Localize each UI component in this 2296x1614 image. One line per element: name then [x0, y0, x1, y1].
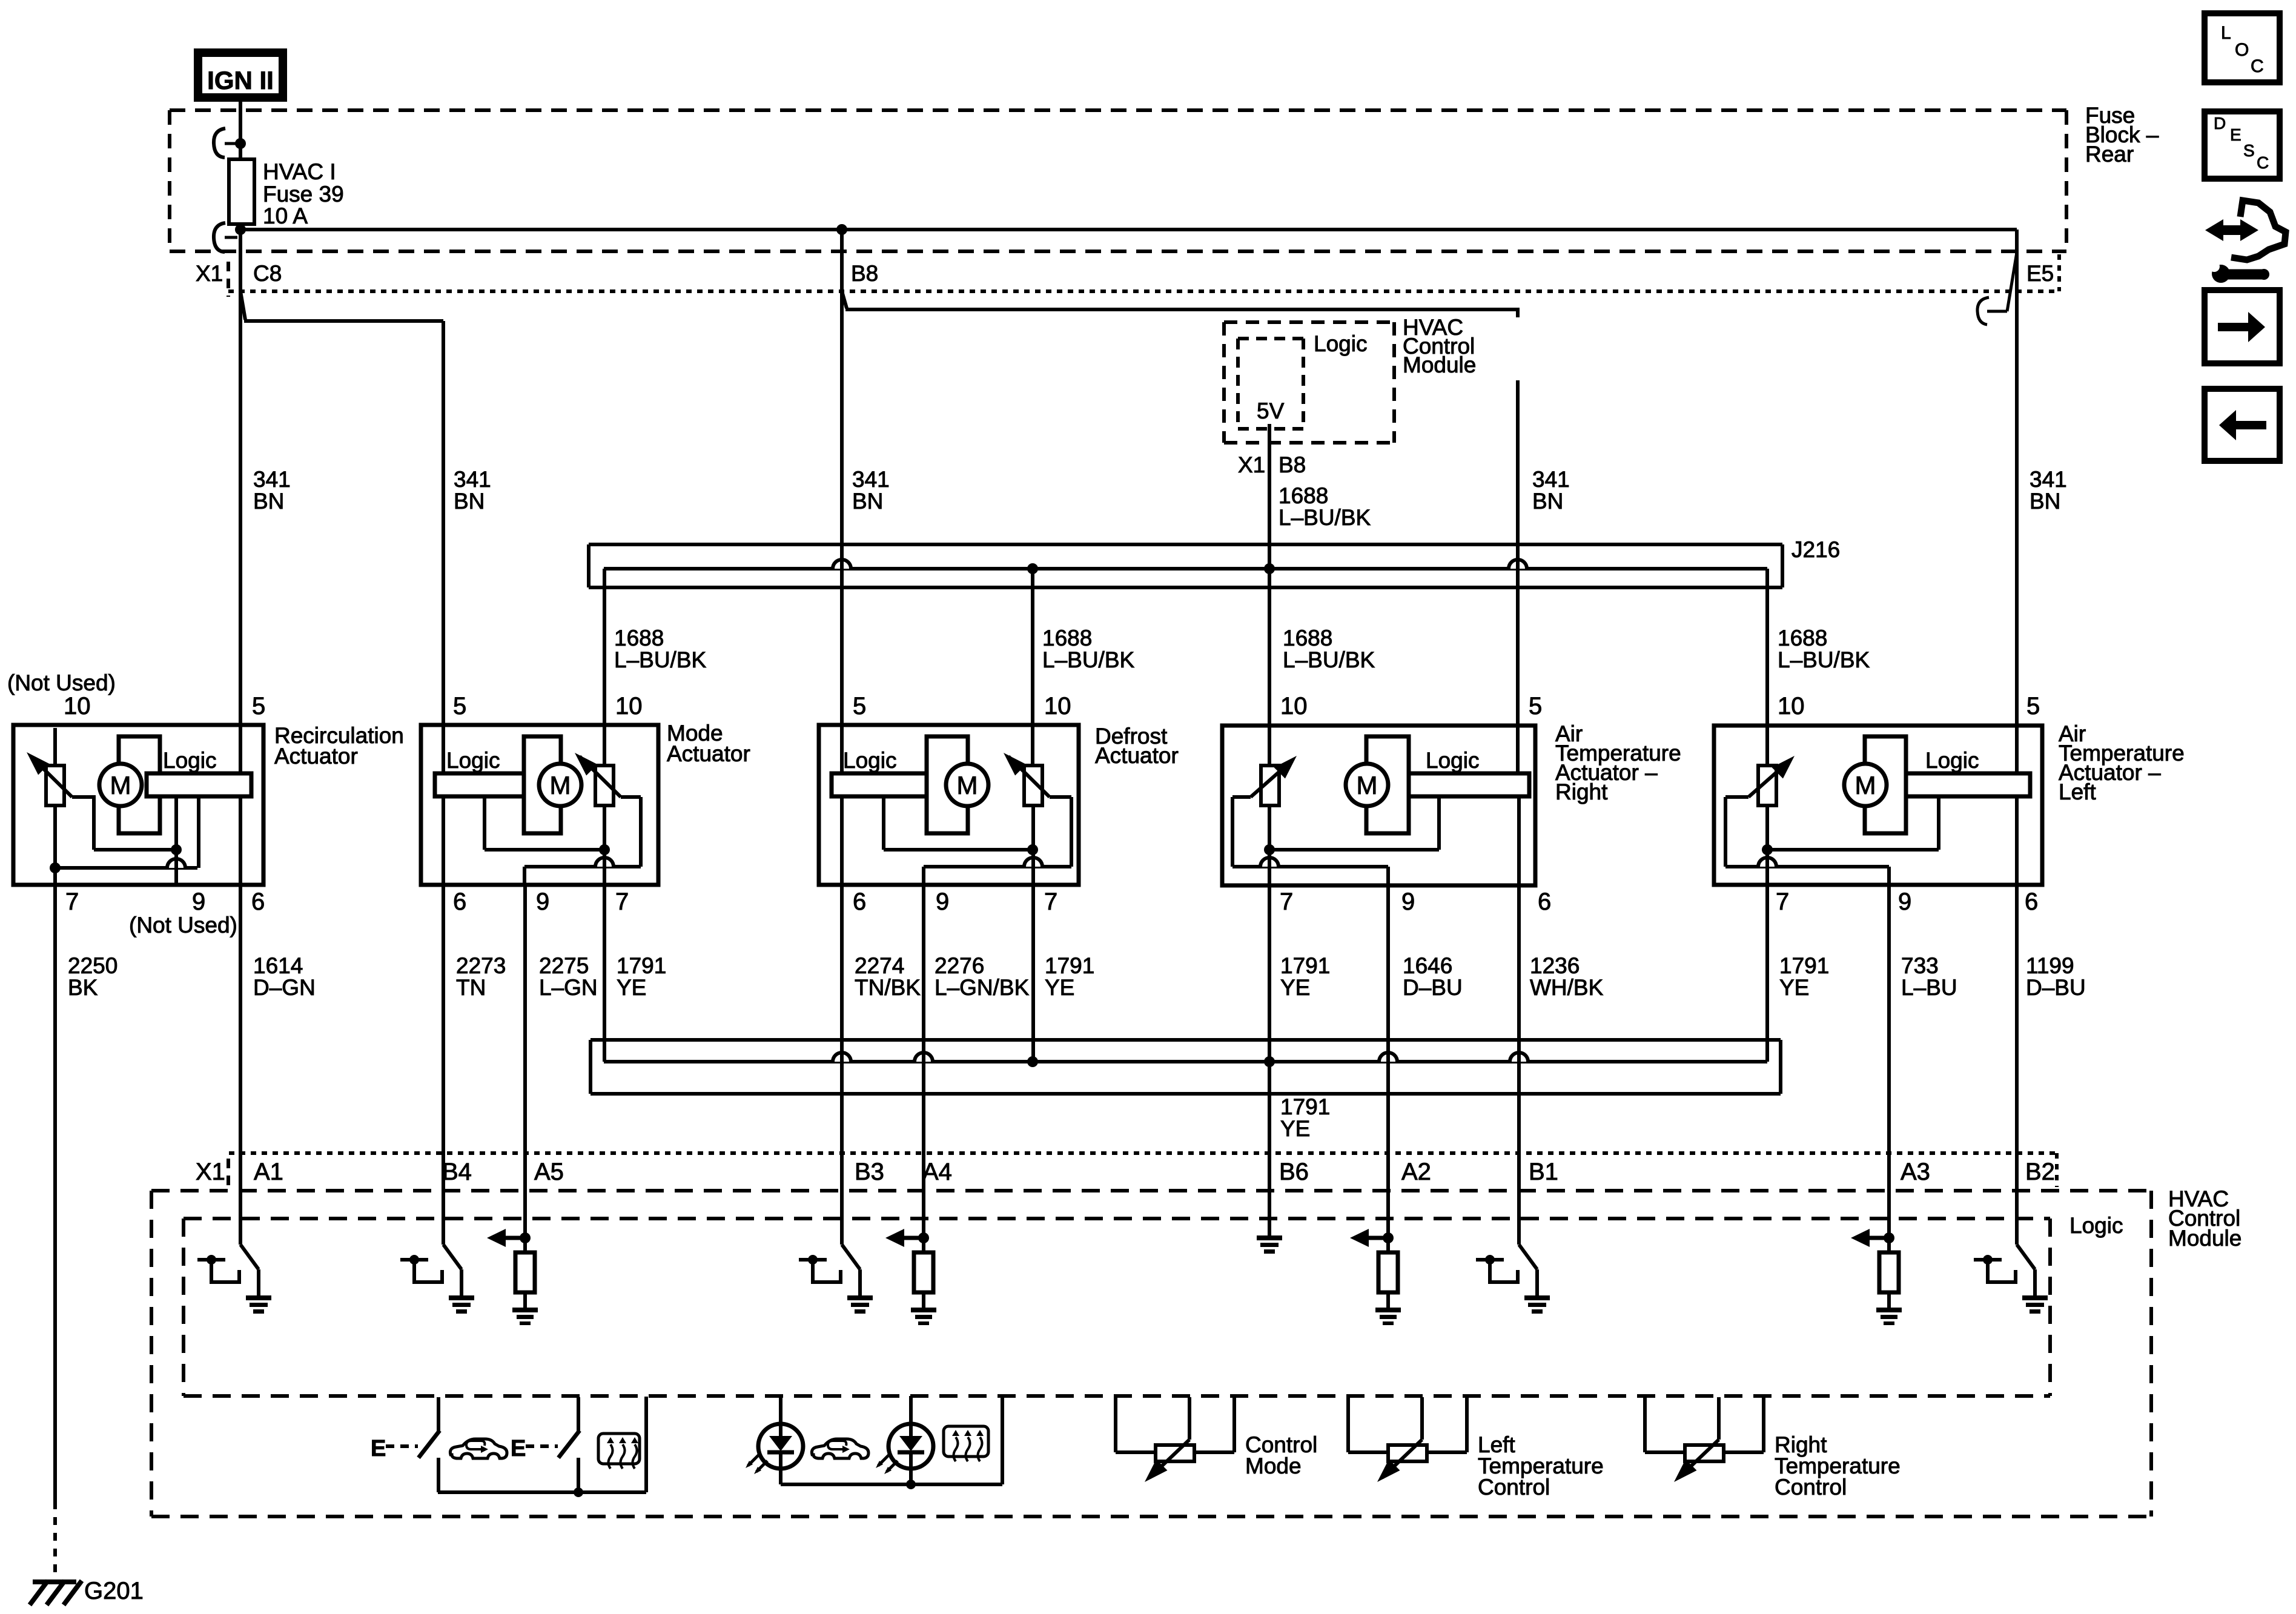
svg-text:341: 341 — [454, 467, 491, 492]
svg-text:2273: 2273 — [456, 953, 506, 978]
svg-text:5V: 5V — [1257, 399, 1285, 423]
svg-text:S: S — [2243, 141, 2255, 160]
svg-text:6: 6 — [853, 888, 866, 915]
svg-text:L–BU/BK: L–BU/BK — [1042, 647, 1135, 672]
svg-text:O: O — [2235, 40, 2249, 60]
svg-text:B2: B2 — [2025, 1159, 2055, 1185]
svg-text:BN: BN — [253, 489, 284, 514]
svg-text:IGN II: IGN II — [207, 66, 274, 94]
svg-text:HVAC I: HVAC I — [263, 159, 336, 184]
svg-text:2275: 2275 — [539, 953, 589, 978]
svg-text:WH/BK: WH/BK — [1530, 975, 1604, 1000]
svg-text:C: C — [2251, 56, 2264, 76]
svg-text:2276: 2276 — [935, 953, 984, 978]
svg-text:9: 9 — [192, 888, 205, 915]
svg-text:1791: 1791 — [1045, 953, 1094, 978]
svg-text:341: 341 — [1532, 467, 1570, 492]
svg-text:Module: Module — [2168, 1226, 2241, 1251]
svg-text:1236: 1236 — [1530, 953, 1580, 978]
svg-text:9: 9 — [1401, 888, 1415, 915]
svg-text:Mode: Mode — [1245, 1454, 1302, 1478]
svg-text:9: 9 — [936, 888, 949, 915]
svg-text:X1: X1 — [1238, 452, 1265, 477]
svg-text:5: 5 — [453, 693, 466, 719]
svg-text:10: 10 — [64, 693, 91, 719]
svg-text:L–BU/BK: L–BU/BK — [614, 647, 707, 672]
svg-text:5: 5 — [853, 693, 866, 719]
svg-text:Left: Left — [2059, 779, 2096, 804]
svg-text:10: 10 — [1280, 693, 1308, 719]
svg-text:L–BU/BK: L–BU/BK — [1778, 647, 1870, 672]
svg-text:7: 7 — [1776, 888, 1789, 915]
svg-text:9: 9 — [536, 888, 549, 915]
svg-text:YE: YE — [1280, 1116, 1310, 1141]
svg-text:X1: X1 — [196, 261, 223, 286]
svg-text:1791: 1791 — [1280, 953, 1330, 978]
svg-text:1646: 1646 — [1403, 953, 1452, 978]
svg-text:M: M — [550, 771, 571, 799]
svg-text:A2: A2 — [1401, 1159, 1431, 1185]
svg-text:Module: Module — [1403, 352, 1476, 377]
svg-text:Logic: Logic — [2069, 1213, 2123, 1238]
svg-text:Actuator: Actuator — [667, 741, 750, 766]
svg-text:B4: B4 — [442, 1159, 472, 1185]
svg-text:B6: B6 — [1279, 1159, 1309, 1185]
svg-text:YE: YE — [1045, 975, 1074, 1000]
svg-text:341: 341 — [852, 467, 890, 492]
svg-text:10: 10 — [1778, 693, 1805, 719]
svg-text:L–GN/BK: L–GN/BK — [935, 975, 1030, 1000]
svg-text:Logic: Logic — [446, 748, 500, 773]
svg-text:M: M — [110, 771, 131, 799]
svg-text:6: 6 — [2025, 888, 2038, 915]
svg-text:B1: B1 — [1529, 1159, 1558, 1185]
svg-text:7: 7 — [1280, 888, 1293, 915]
svg-text:Logic: Logic — [1426, 748, 1479, 773]
svg-text:M: M — [1357, 771, 1378, 799]
svg-text:Logic: Logic — [843, 748, 896, 773]
svg-text:1614: 1614 — [253, 953, 303, 978]
svg-text:1791: 1791 — [1280, 1094, 1330, 1119]
svg-text:BK: BK — [68, 975, 98, 1000]
svg-text:2274: 2274 — [855, 953, 904, 978]
svg-text:D–GN: D–GN — [253, 975, 316, 1000]
svg-text:6: 6 — [453, 888, 466, 915]
svg-text:B3: B3 — [855, 1159, 884, 1185]
svg-text:Logic: Logic — [163, 748, 216, 773]
svg-text:B8: B8 — [851, 261, 878, 286]
svg-text:Actuator: Actuator — [1095, 743, 1179, 768]
svg-text:D–BU: D–BU — [2026, 975, 2086, 1000]
svg-text:BN: BN — [454, 489, 485, 514]
svg-text:TN: TN — [456, 975, 486, 1000]
svg-text:G201: G201 — [84, 1578, 144, 1604]
svg-text:5: 5 — [2026, 693, 2040, 719]
svg-text:(Not Used): (Not Used) — [129, 913, 237, 938]
svg-text:1688: 1688 — [1042, 626, 1092, 650]
svg-text:1688: 1688 — [1778, 626, 1827, 650]
svg-text:9: 9 — [1898, 888, 1911, 915]
svg-text:C: C — [2257, 153, 2269, 172]
svg-text:E: E — [371, 1436, 386, 1461]
svg-text:M: M — [957, 771, 978, 799]
svg-text:1199: 1199 — [2026, 953, 2074, 978]
svg-text:M: M — [1855, 771, 1876, 799]
svg-text:1688: 1688 — [1283, 626, 1332, 650]
svg-text:A4: A4 — [922, 1159, 952, 1185]
svg-text:L–BU: L–BU — [1901, 975, 1957, 1000]
svg-text:X1: X1 — [196, 1159, 225, 1185]
svg-text:E: E — [511, 1436, 526, 1461]
svg-text:341: 341 — [253, 467, 291, 492]
svg-text:D: D — [2214, 114, 2226, 133]
svg-text:1791: 1791 — [1779, 953, 1829, 978]
svg-text:Rear: Rear — [2085, 142, 2134, 167]
svg-text:733: 733 — [1901, 953, 1939, 978]
svg-text:Fuse 39: Fuse 39 — [263, 182, 344, 207]
svg-text:A3: A3 — [1901, 1159, 1930, 1185]
svg-text:B8: B8 — [1279, 452, 1306, 477]
svg-text:A5: A5 — [534, 1159, 564, 1185]
svg-text:Control: Control — [1775, 1475, 1847, 1500]
svg-text:5: 5 — [1529, 693, 1542, 719]
svg-text:2250: 2250 — [68, 953, 117, 978]
svg-text:1688: 1688 — [614, 626, 664, 650]
svg-text:L: L — [2221, 23, 2231, 43]
svg-text:YE: YE — [1779, 975, 1809, 1000]
svg-text:L–GN: L–GN — [539, 975, 598, 1000]
svg-text:7: 7 — [1044, 888, 1057, 915]
svg-text:E: E — [2230, 125, 2241, 144]
svg-text:341: 341 — [2030, 467, 2067, 492]
svg-text:YE: YE — [1280, 975, 1310, 1000]
svg-text:J216: J216 — [1791, 537, 1840, 562]
svg-text:1688: 1688 — [1279, 483, 1328, 508]
svg-text:10 A: 10 A — [263, 203, 308, 228]
svg-text:BN: BN — [1532, 489, 1563, 514]
svg-text:7: 7 — [615, 888, 629, 915]
svg-text:C8: C8 — [253, 261, 282, 286]
svg-text:BN: BN — [852, 489, 883, 514]
svg-text:10: 10 — [1044, 693, 1071, 719]
svg-text:Actuator: Actuator — [274, 744, 358, 769]
svg-text:5: 5 — [252, 693, 265, 719]
svg-text:L–BU/BK: L–BU/BK — [1279, 505, 1371, 530]
svg-text:1791: 1791 — [617, 953, 666, 978]
svg-text:Control: Control — [1478, 1475, 1550, 1500]
svg-text:(Not Used): (Not Used) — [7, 670, 116, 695]
svg-text:6: 6 — [251, 888, 265, 915]
svg-text:7: 7 — [65, 888, 79, 915]
svg-text:Logic: Logic — [1314, 331, 1367, 356]
svg-text:TN/BK: TN/BK — [855, 975, 921, 1000]
svg-text:Right: Right — [1555, 779, 1608, 804]
svg-text:A1: A1 — [254, 1159, 283, 1185]
svg-text:Logic: Logic — [1925, 748, 1979, 773]
svg-text:YE: YE — [617, 975, 646, 1000]
svg-text:10: 10 — [615, 693, 643, 719]
svg-text:E5: E5 — [2026, 261, 2054, 286]
svg-text:D–BU: D–BU — [1403, 975, 1463, 1000]
svg-text:L–BU/BK: L–BU/BK — [1283, 647, 1375, 672]
svg-text:BN: BN — [2030, 489, 2060, 514]
svg-text:6: 6 — [1538, 888, 1551, 915]
